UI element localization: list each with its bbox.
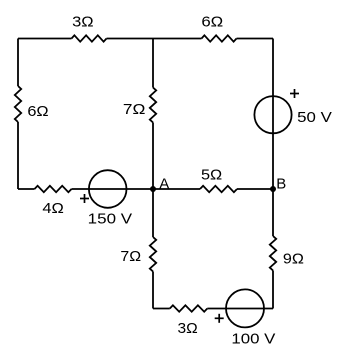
resistor 5Ω (200, 186, 237, 192)
wire top right segment (237, 38, 274, 40)
wire left lower segment (17, 122, 19, 189)
voltage source 50V circle (254, 96, 291, 133)
wire middle to node A (152, 123, 154, 190)
wire AB left stub (18, 188, 35, 190)
voltage source 100V circle (226, 289, 264, 327)
svg-text:100 V: 100 V (231, 330, 275, 347)
node B dot (270, 186, 276, 192)
svg-text:3Ω: 3Ω (72, 13, 94, 30)
svg-text:B: B (276, 175, 286, 192)
wire middle below node A (152, 189, 154, 237)
wire through 150V source to node A (72, 188, 154, 190)
resistor 4Ω (35, 186, 72, 192)
wire right below node B (272, 189, 274, 236)
svg-text:6Ω: 6Ω (201, 13, 223, 30)
wire middle bottom segment (152, 272, 154, 309)
plus sign 100V (215, 314, 224, 323)
svg-text:4Ω: 4Ω (42, 200, 64, 217)
svg-text:50 V: 50 V (297, 109, 332, 126)
resistor 3Ω bottom (170, 305, 208, 311)
wire top middle segment (107, 38, 202, 40)
wire left upper segment (17, 39, 19, 87)
svg-text:9Ω: 9Ω (283, 250, 304, 267)
voltage source 150V circle (89, 170, 127, 208)
svg-text:7Ω: 7Ω (120, 248, 141, 265)
wire A to 5Ω (153, 188, 200, 190)
svg-text:150 V: 150 V (88, 210, 132, 227)
wire top left segment (18, 38, 72, 40)
node A dot (150, 186, 156, 192)
wire middle upper segment (152, 39, 154, 88)
plus sign 150V (80, 194, 89, 203)
plus sign 50V (290, 89, 299, 98)
resistor 7Ω upper middle (150, 88, 156, 123)
svg-text:3Ω: 3Ω (178, 320, 198, 337)
wire bottom left stub (153, 308, 170, 310)
resistor 9Ω (270, 236, 276, 271)
resistor 3Ω top (72, 35, 107, 41)
svg-text:7Ω: 7Ω (123, 101, 146, 118)
wire through 100V source to bottom right corner (207, 308, 273, 310)
resistor 7Ω lower middle (150, 237, 156, 272)
svg-text:6Ω: 6Ω (27, 103, 48, 120)
wire right bottom segment (272, 271, 274, 309)
resistor 6Ω top (202, 35, 237, 41)
wire right from top corner through 50V source to node B (272, 39, 274, 190)
resistor 6Ω left (15, 86, 21, 122)
wire 5Ω to node B (237, 188, 273, 190)
svg-text:5Ω: 5Ω (201, 166, 222, 183)
